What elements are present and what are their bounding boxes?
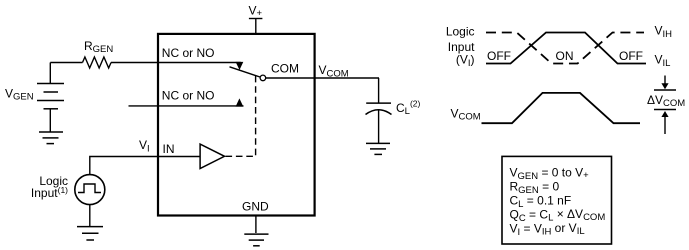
- wire NC/NO pin 2: [129, 105, 244, 107]
- VCOM waveform: [482, 93, 641, 123]
- svg-text:IN: IN: [163, 142, 175, 156]
- svg-text:VIL: VIL: [655, 53, 671, 69]
- throw contact arrow pin 1: [236, 62, 244, 70]
- svg-text:RGEN: RGEN: [84, 39, 113, 55]
- svg-text:ON: ON: [556, 49, 574, 63]
- wire VGEN to resistor: [50, 62, 82, 64]
- svg-text:VI = VIH or VIL: VI = VIH or VIL: [510, 221, 585, 238]
- svg-text:Input(1): Input(1): [31, 185, 68, 200]
- throw contact arrow pin 2: [236, 98, 244, 106]
- svg-text:CL(2): CL(2): [396, 99, 421, 118]
- svg-text:GND: GND: [242, 200, 269, 214]
- DUT box U1: [158, 34, 315, 216]
- ground below GND pin: [244, 234, 268, 246]
- dashed actuator line buffer to switch: [226, 76, 256, 157]
- svg-text:VI: VI: [139, 138, 150, 154]
- notes box: [502, 156, 612, 244]
- wire COM to VCOM node: [266, 77, 379, 79]
- buffer driver U2: [200, 144, 224, 168]
- delta VCOM up arrow: [661, 111, 668, 134]
- resistor RGEN: [83, 57, 112, 68]
- ground below capacitor: [366, 143, 390, 154]
- label Logic Input (1): [31, 174, 68, 200]
- svg-text:NC or NO: NC or NO: [162, 46, 215, 60]
- delta VCOM lower tick: [654, 109, 676, 111]
- svg-text:OFF: OFF: [619, 49, 643, 63]
- svg-text:(VI): (VI): [456, 52, 475, 69]
- svg-text:VGEN: VGEN: [5, 87, 34, 103]
- logic input dashed complement waveform: [486, 33, 644, 64]
- svg-text:VIH: VIH: [655, 24, 673, 40]
- battery VGEN: [37, 63, 64, 132]
- label Logic Input (VI) timing: [446, 24, 475, 69]
- svg-text:VCOM: VCOM: [451, 106, 481, 122]
- wire pulse source to IN pin: [90, 157, 200, 175]
- wire V+ to box: [255, 19, 257, 34]
- svg-text:COM: COM: [271, 62, 299, 76]
- ground below pulse source: [77, 227, 103, 240]
- delta VCOM down arrow: [661, 76, 668, 90]
- svg-text:V+: V+: [249, 4, 263, 20]
- svg-text:Logic: Logic: [446, 24, 475, 38]
- capacitor CL: [366, 103, 392, 114]
- logic input solid waveform: [486, 33, 646, 64]
- switch lever SW1: [230, 67, 261, 77]
- V+ supply terminal: [249, 4, 263, 20]
- svg-text:OFF: OFF: [487, 49, 511, 63]
- wire capacitor to ground: [378, 111, 380, 144]
- delta VCOM upper tick: [654, 89, 676, 91]
- switch pole circle COM: [260, 75, 266, 81]
- wire resistor to NC/NO pin 1: [111, 62, 241, 64]
- svg-text:VCOM: VCOM: [319, 63, 349, 79]
- svg-text:NC or NO: NC or NO: [162, 89, 215, 103]
- svg-text:ΔVCOM: ΔVCOM: [647, 93, 685, 109]
- wire GND pin to ground: [255, 215, 257, 233]
- wire VCOM node to capacitor: [378, 78, 380, 103]
- ground below VGEN: [39, 132, 63, 144]
- pulse source V1: [75, 175, 105, 205]
- wire pulse source to ground: [89, 205, 91, 227]
